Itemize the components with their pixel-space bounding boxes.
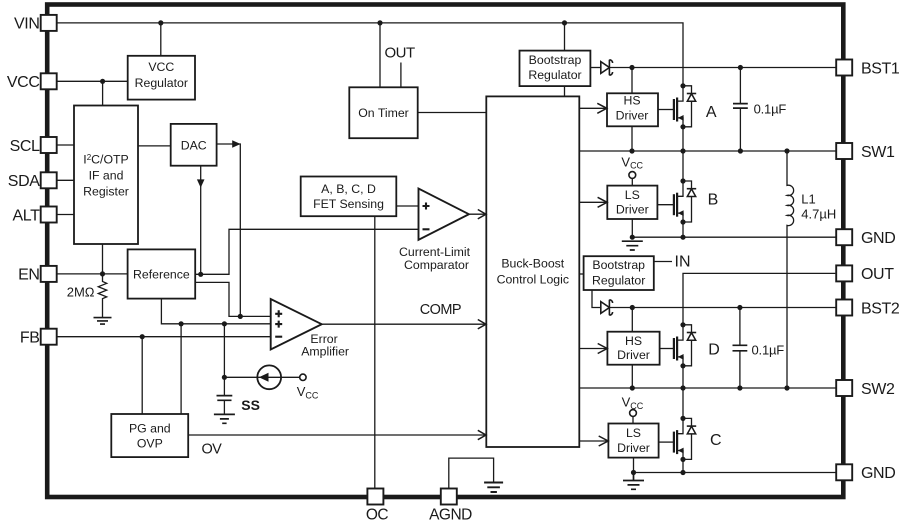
svg-text:OUT: OUT	[385, 44, 416, 61]
node en-i2c	[100, 271, 105, 276]
block DAC	[171, 124, 217, 166]
wire LS driver1 bottom to gnd line	[631, 219, 633, 237]
pin OUT	[836, 265, 852, 281]
wire SW2 line	[579, 387, 837, 389]
arrowheads: filled	[197, 140, 241, 188]
wire VIN top rail	[55, 23, 683, 86]
wire AGND pin to ground	[449, 458, 494, 488]
node sw1-L1	[784, 148, 789, 153]
body diode of B	[683, 181, 692, 222]
wire on-timer output to logic	[418, 112, 487, 114]
wire DAC bottom output	[200, 166, 202, 275]
block Bootstrap Regulator 2	[584, 256, 654, 290]
body diode of C	[683, 418, 692, 459]
wire reference bottom to error amp plus2	[161, 299, 270, 324]
diode D1 schottky	[601, 62, 610, 74]
label Error Amplifier	[301, 245, 470, 358]
wire I2C to DAC	[138, 145, 171, 147]
transistor D mosfet	[660, 348, 674, 350]
node vin-ontimer	[377, 20, 382, 25]
node vin-vccreg	[158, 20, 163, 25]
node sw2-hsdrv2	[630, 385, 635, 390]
arrow into LS driver1	[598, 197, 608, 207]
pin OC	[367, 489, 383, 505]
wire on-timer top stub	[379, 23, 381, 87]
block LS Driver 1	[607, 186, 657, 219]
svg-text:OUT: OUT	[861, 266, 894, 283]
svg-text:Amplifier: Amplifier	[301, 345, 349, 359]
pin VCC	[41, 73, 57, 89]
svg-text:VIN: VIN	[14, 16, 39, 33]
wire HS driver1 bottom stub	[631, 126, 633, 151]
svg-text:Control Logic: Control Logic	[497, 273, 569, 287]
wire ref branch to PG-OVP	[180, 324, 182, 414]
node vcc-i2c	[100, 79, 105, 84]
pin GND2	[836, 464, 852, 480]
svg-text:HS: HS	[623, 93, 640, 107]
arrowheads: open chevrons	[478, 103, 608, 446]
node ref-ss	[222, 321, 227, 326]
wire SDA stub	[55, 179, 74, 181]
ground below 2MOhm	[94, 318, 112, 325]
wire C source to gnd2	[682, 459, 684, 472]
node bst2-cap2	[737, 305, 742, 310]
svg-text:4.7µH: 4.7µH	[801, 206, 836, 221]
wire B source to gnd line	[682, 222, 684, 237]
body diode of A	[683, 86, 692, 127]
node ref-pgovp	[179, 321, 184, 326]
wire EN pin line	[55, 273, 127, 275]
wire HS driver2 bottom stub	[631, 365, 633, 388]
wire VCC-regulator top stub	[160, 23, 162, 56]
block I2C/OTP IF and Register	[74, 106, 138, 245]
wire B drain to SW1	[682, 151, 684, 181]
pin SW2	[836, 380, 852, 396]
node dac-ref	[198, 272, 203, 277]
svg-text:OVP: OVP	[137, 436, 163, 450]
svg-text:Driver: Driver	[616, 203, 649, 217]
wire bootstrap1 bottom stub	[564, 86, 566, 96]
svg-text:EN: EN	[18, 267, 39, 284]
node sw1-A	[680, 148, 685, 153]
terminal Vcc of LS driver1	[629, 172, 636, 179]
pin SDA	[41, 172, 57, 188]
minus mark comparator	[423, 228, 430, 230]
node gnd1-B	[680, 235, 685, 240]
pin EN	[41, 266, 57, 282]
wire I2C bottom stub to EN	[102, 244, 104, 274]
plus mark error amp in2	[275, 321, 282, 328]
node A source	[680, 124, 685, 129]
plus mark error amp in1	[275, 310, 282, 317]
block Buck-Boost Control Logic	[486, 96, 579, 447]
svg-text:Reference: Reference	[133, 267, 190, 281]
svg-text:Bootstrap: Bootstrap	[592, 258, 645, 272]
wire GND2 line	[634, 472, 838, 474]
ground below SS capacitor	[214, 414, 235, 423]
node fb-pgovp	[140, 334, 145, 339]
node sw1-cap1	[738, 148, 743, 153]
svg-text:Register: Register	[83, 184, 129, 198]
svg-text:SW1: SW1	[861, 144, 895, 161]
arrow into HS driver2	[598, 344, 608, 354]
node dac-erroramp	[238, 314, 243, 319]
svg-text:LS: LS	[626, 426, 641, 440]
svg-text:Regulator: Regulator	[135, 76, 188, 90]
node bst1-hsdrv1	[629, 65, 634, 70]
blocks	[74, 51, 660, 458]
wire C drain to SW2	[682, 388, 684, 418]
svg-text:BST1: BST1	[861, 60, 900, 77]
pin AGND	[441, 489, 457, 505]
svg-text:Driver: Driver	[616, 109, 649, 123]
transistor A mosfet	[658, 109, 674, 111]
block On Timer	[349, 87, 417, 138]
svg-text:DAC: DAC	[181, 138, 207, 152]
wire logic to LS driver2	[579, 440, 608, 442]
ground below LS driver1	[622, 241, 643, 250]
svg-text:SS: SS	[241, 397, 260, 413]
capacitor C1 plates	[733, 104, 748, 109]
svg-text:Regulator: Regulator	[528, 68, 581, 82]
svg-text:Buck-Boost: Buck-Boost	[501, 257, 564, 271]
wire FB pin to error amp minus	[55, 336, 270, 338]
node sw2-cap2	[737, 385, 742, 390]
node sw1-hsdrv1	[629, 148, 634, 153]
svg-text:SW2: SW2	[861, 381, 895, 398]
pin SCL	[41, 137, 57, 153]
pin GND1	[836, 229, 852, 245]
node bst1-cap1	[738, 65, 743, 70]
wire FET sensing to comparator plus	[396, 205, 418, 207]
op-amp error amplifier	[271, 299, 322, 350]
wire SW1 line	[579, 150, 837, 152]
wire ALT stub	[55, 214, 74, 216]
svg-text:VCC: VCC	[148, 60, 174, 74]
pin SW1	[836, 143, 852, 159]
wire OUT pin line to D drain	[683, 273, 835, 324]
node gnd2-C	[680, 470, 685, 475]
svg-text:D: D	[708, 342, 720, 359]
block VCC Regulator	[128, 56, 195, 100]
block LS Driver 2	[608, 424, 658, 458]
op-amp input polarity marks	[275, 203, 429, 337]
wire comparator output to logic	[469, 213, 486, 215]
wire SCL stub	[55, 144, 74, 146]
wire VCC branch to I2C block	[102, 81, 104, 105]
capacitor SS	[223, 377, 225, 414]
ground AGND	[484, 483, 503, 493]
current source SS	[257, 365, 281, 389]
wire SS node to Vcc terminal	[224, 376, 299, 378]
wire FB branch to PG-OVP	[141, 337, 143, 414]
block Reference	[128, 249, 196, 298]
node gnd1-lsdrv1	[630, 235, 635, 240]
svg-text:Driver: Driver	[617, 348, 650, 362]
svg-text:Regulator: Regulator	[592, 274, 645, 288]
wire LS driver2 bottom to gnd2	[633, 458, 635, 473]
block texts	[83, 53, 650, 455]
wire HS driver2 top stub	[631, 308, 633, 332]
wire logic to LS driver1	[579, 201, 607, 203]
wire COMP error-amp output	[322, 323, 486, 325]
minus mark error amp in3	[275, 336, 282, 338]
node C drain	[680, 416, 685, 421]
svg-text:Bootstrap: Bootstrap	[529, 53, 582, 67]
svg-text:A: A	[706, 104, 717, 121]
wire GND1 line	[632, 236, 837, 238]
transistor B mosfet	[657, 204, 674, 206]
svg-text:L1: L1	[801, 191, 815, 206]
svg-text:BST2: BST2	[861, 300, 900, 317]
ground below LS driver2	[623, 473, 644, 490]
plus mark comparator	[423, 203, 430, 210]
wire logic to bootstrap2	[579, 273, 583, 275]
block FET Sensing	[301, 177, 397, 217]
wire A source to SW1	[682, 127, 684, 151]
svg-text:IN: IN	[675, 253, 691, 270]
wire reference out to current-limit comparator minus	[195, 229, 418, 274]
node sw2-L1	[784, 385, 789, 390]
node B drain	[680, 178, 685, 183]
arrow into HS driver1	[597, 103, 607, 113]
svg-text:C: C	[710, 432, 722, 449]
capacitor C1 bottom lead	[739, 108, 741, 151]
svg-text:SDA: SDA	[8, 173, 40, 190]
wire OV line PG-OVP to logic	[188, 434, 486, 436]
arrow into LS driver2	[599, 436, 609, 446]
svg-text:IF and: IF and	[89, 168, 124, 182]
pin FB	[41, 329, 57, 345]
wire FET sensing to OC pin	[374, 216, 376, 488]
svg-text:B: B	[708, 192, 719, 209]
wire bootstrap2 IN stub	[654, 261, 672, 263]
diode D2 schottky	[601, 302, 610, 314]
svg-text:2MΩ: 2MΩ	[67, 285, 95, 300]
svg-text:VCC: VCC	[7, 74, 40, 91]
pin BST2	[836, 300, 852, 316]
wire BST2 line to pin	[609, 307, 837, 309]
svg-text:FET Sensing: FET Sensing	[313, 197, 384, 211]
terminal Vcc of current source	[300, 374, 306, 380]
wire branch to SS node	[223, 324, 225, 378]
block PG and OVP	[111, 414, 188, 457]
svg-text:A, B, C, D: A, B, C, D	[321, 182, 376, 196]
wire D source to SW2	[682, 366, 684, 388]
svg-text:Driver: Driver	[617, 441, 650, 455]
node vin-bootstrap1	[562, 20, 567, 25]
svg-text:GND: GND	[861, 465, 895, 482]
node D source	[680, 363, 685, 368]
svg-text:0.1µF: 0.1µF	[754, 101, 787, 116]
capacitor C2 plates	[733, 345, 748, 351]
node C source	[680, 457, 685, 462]
node A drain	[680, 83, 685, 88]
resistor 2MOhm	[98, 274, 106, 318]
svg-text:GND: GND	[861, 230, 895, 247]
block HS Driver 1	[607, 93, 658, 126]
svg-text:ALT: ALT	[13, 207, 41, 224]
svg-text:COMP: COMP	[420, 302, 461, 318]
node B source	[680, 219, 685, 224]
capacitor C1 0.1uF top lead	[739, 68, 741, 104]
arrow DAC down output	[197, 179, 205, 187]
wire bootstrap2 bottom stub	[592, 290, 601, 308]
wire HS driver1 top stub	[631, 68, 633, 94]
svg-text:FB: FB	[20, 330, 40, 347]
node ss	[222, 375, 227, 380]
wire logic to HS driver2	[579, 348, 607, 350]
terminal Vcc of LS driver2	[630, 410, 637, 417]
body diode of D	[683, 325, 692, 366]
arrow OV into logic	[478, 430, 486, 439]
wire BST1 line to pin	[609, 67, 837, 69]
capacitor C2 0.1uF top lead	[739, 308, 741, 345]
svg-text:PG and: PG and	[129, 422, 171, 436]
block HS Driver 2	[607, 332, 659, 365]
pin ALT	[41, 207, 57, 223]
svg-text:Current-Limit: Current-Limit	[399, 245, 471, 259]
wire logic to HS driver1	[579, 107, 605, 109]
inductor L1	[787, 151, 794, 388]
svg-text:HS: HS	[625, 334, 642, 348]
arrow comparator output	[478, 210, 486, 219]
node sw2-D	[680, 385, 685, 390]
svg-text:LS: LS	[625, 188, 640, 202]
node gnd2-lsdrv2	[631, 470, 636, 475]
wire DAC right output	[217, 144, 241, 316]
transistor C mosfet	[659, 441, 674, 443]
svg-text:OV: OV	[202, 442, 223, 458]
svg-text:SCL: SCL	[10, 138, 40, 155]
wire VCC pin line	[55, 80, 127, 82]
op-amp current-limit comparator	[419, 189, 469, 240]
wire bootstrap1 to diode	[590, 67, 600, 69]
node bst2-hsdrv2	[630, 305, 635, 310]
arrow DAC right output	[232, 140, 240, 148]
wire OUT stub into on-timer	[400, 63, 402, 88]
capacitor C2 bottom lead	[739, 351, 741, 388]
svg-text:AGND: AGND	[429, 507, 472, 523]
wire bootstrap1 top stub	[564, 23, 566, 51]
block Bootstrap Regulator 1	[520, 51, 591, 87]
svg-text:On Timer: On Timer	[358, 106, 409, 120]
svg-text:OC: OC	[366, 507, 389, 523]
svg-text:Comparator: Comparator	[404, 258, 469, 272]
arrow COMP into logic	[478, 320, 486, 329]
node D drain	[680, 322, 685, 327]
pin BST1	[836, 60, 852, 76]
svg-text:0.1µF: 0.1µF	[752, 343, 785, 358]
wire reference out2 to error amp plus1	[195, 282, 271, 316]
pin VIN	[41, 15, 57, 31]
